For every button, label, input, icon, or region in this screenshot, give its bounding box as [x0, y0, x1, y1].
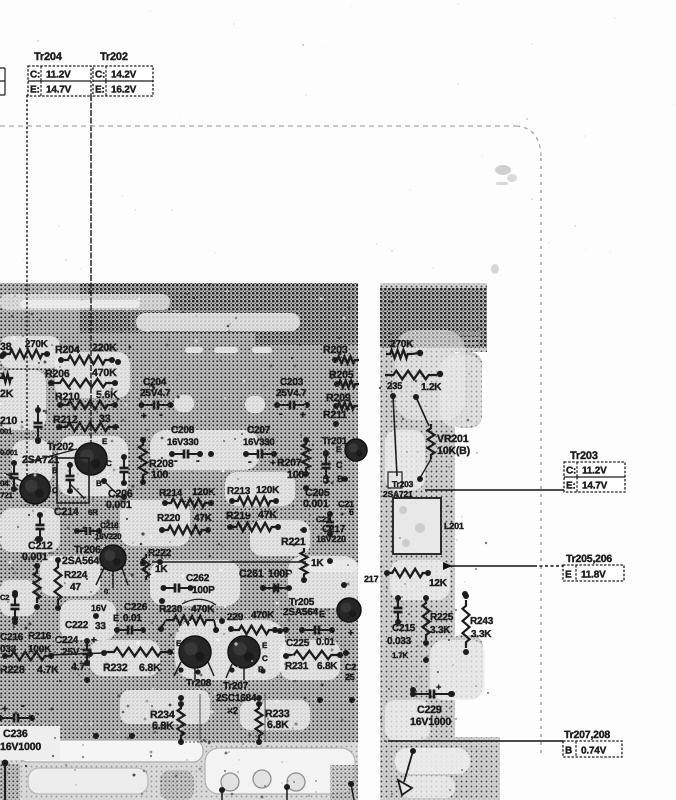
resistor R203: [323, 344, 359, 364]
svg-text:R224: R224: [64, 570, 88, 581]
resistor R219 47K: [226, 509, 281, 531]
svg-text:47K: 47K: [194, 513, 213, 524]
resistor R207 100: [277, 437, 310, 481]
svg-text:-: -: [196, 455, 200, 467]
transistor type 2SC1684 x2: [216, 693, 257, 717]
capacitor C226 0.01: [113, 602, 148, 635]
capacitor C224 25V4.7: [55, 635, 97, 683]
capacitor C215 0.033: [387, 595, 416, 647]
capacitor C230 label: [0, 593, 9, 602]
svg-text:470K: 470K: [251, 610, 275, 621]
transistor voltage table Tr207,208 header: [564, 729, 610, 741]
svg-text:Tr203: Tr203: [570, 450, 598, 462]
svg-text:E: E: [565, 570, 572, 581]
svg-text:C216: C216: [0, 632, 24, 643]
resistor R228 4.7K: [0, 652, 103, 676]
resistor R229 470K: [227, 610, 278, 634]
svg-text:47: 47: [70, 582, 81, 593]
resistor R216 100K: [28, 631, 52, 655]
resistor R217 12K: [364, 569, 448, 589]
svg-text:R211: R211: [323, 409, 347, 421]
capacitor C206 0.001: [106, 454, 133, 511]
svg-text:C: C: [336, 460, 343, 470]
svg-text:+: +: [141, 411, 147, 422]
svg-text:4.7K: 4.7K: [37, 664, 59, 676]
junction dots right block: [410, 591, 468, 697]
svg-text:0.001: 0.001: [0, 448, 18, 457]
capacitor C208 16V330: [167, 425, 203, 467]
svg-text:B: B: [96, 479, 102, 488]
svg-text:C203: C203: [280, 377, 304, 388]
svg-text:0.001: 0.001: [106, 499, 132, 511]
svg-text:470K: 470K: [92, 367, 117, 379]
svg-text:C204: C204: [143, 377, 167, 388]
transistor pin B node: [96, 478, 120, 497]
svg-text:-: -: [159, 409, 163, 421]
svg-text:100: 100: [151, 469, 168, 481]
resistor R221 1K: [281, 527, 324, 583]
svg-text:25: 25: [345, 672, 355, 682]
svg-text:120K: 120K: [256, 485, 280, 496]
board outline dashed right: [540, 158, 542, 757]
bracket 2SC1684: [181, 694, 265, 742]
junction dots bottom: [219, 781, 354, 800]
svg-text:R228: R228: [0, 664, 25, 676]
capacitor C210 0.001: [0, 405, 43, 443]
resistor R206 470K: [0, 367, 118, 387]
svg-text:14.7V: 14.7V: [46, 85, 72, 96]
svg-text:+: +: [348, 628, 354, 639]
capacitor C212 0.001: [22, 512, 53, 563]
voltage table Tr205,206: [563, 565, 624, 581]
svg-text:VR201: VR201: [437, 433, 469, 445]
capacitor C207 16V330: [243, 425, 277, 469]
transistor Tr208: [174, 636, 214, 680]
resistor value 1.7K: [392, 651, 409, 660]
capacitor C236 16V1000: [0, 700, 60, 760]
svg-text:C218: C218: [100, 521, 119, 530]
svg-text:210: 210: [0, 415, 17, 427]
svg-text:2SA564: 2SA564: [283, 607, 319, 618]
svg-text:14.7V: 14.7V: [582, 481, 608, 492]
resistor R204 220K: [55, 342, 117, 364]
transistor Tr201: [322, 436, 367, 484]
svg-text:+: +: [2, 704, 8, 715]
capacitor C220 left edge: [11, 590, 20, 625]
resistor R235 1.2K: [385, 371, 443, 476]
svg-text:C262: C262: [186, 573, 210, 584]
L201 pad area: [393, 498, 441, 554]
capacitor C205 0.001: [303, 487, 330, 510]
capacitor C229 16V1000: [410, 682, 454, 728]
svg-text:2K: 2K: [0, 388, 14, 400]
svg-text:C222: C222: [65, 620, 89, 631]
svg-text:Tr204: Tr204: [34, 51, 63, 63]
svg-text:1K: 1K: [155, 564, 168, 575]
capacitor C214 box: [57, 458, 89, 503]
resistor R231 6.8K: [283, 651, 343, 672]
svg-text:1.7K: 1.7K: [392, 651, 409, 660]
svg-text:C236: C236: [3, 728, 28, 740]
resistor R209: [326, 392, 358, 410]
transistor voltage table Tr202 header: [100, 51, 128, 63]
resistor R220 47K: [157, 513, 213, 534]
svg-text:C208: C208: [171, 425, 195, 436]
PCB copper area right block: [380, 283, 500, 800]
svg-text:100P: 100P: [268, 568, 292, 580]
node 16V: [91, 603, 107, 613]
svg-text:+: +: [300, 410, 306, 421]
svg-text:E:: E:: [30, 85, 40, 96]
svg-text:0: 0: [104, 587, 108, 596]
solder strip bottom-left: [0, 740, 358, 800]
svg-text:×2: ×2: [227, 706, 239, 717]
transistor Tr202: [28, 437, 112, 475]
svg-text:0.001: 0.001: [303, 498, 329, 510]
resistor R205: [329, 369, 359, 388]
voltage table Tr202: [93, 66, 153, 96]
svg-text:6: 6: [349, 507, 354, 517]
junction dots scattered: [0, 353, 355, 739]
voltage table Tr207,208: [563, 741, 622, 757]
wire to Tr205,206 table: [443, 562, 563, 570]
svg-text:E: E: [319, 609, 325, 619]
voltage table Tr204: [28, 66, 91, 96]
capacitor C261 100P: [239, 568, 292, 593]
svg-text:25V4.7: 25V4.7: [140, 388, 171, 399]
svg-text:+: +: [94, 534, 99, 544]
transistor Tr203: [383, 472, 423, 499]
wire to Tr203 table: [425, 489, 564, 491]
resistor R234 6.8K: [150, 701, 185, 745]
svg-text:C:: C:: [30, 70, 40, 81]
svg-text:-: -: [248, 456, 252, 468]
svg-text:217: 217: [364, 574, 379, 584]
capacitor C222 33: [65, 620, 106, 632]
resistor R210 5.6K: [55, 389, 118, 409]
dark copper band top-left: [0, 283, 358, 345]
svg-text:120K: 120K: [192, 487, 216, 498]
capacitor C211 0.001: [0, 448, 19, 492]
svg-text:E: E: [102, 437, 108, 446]
svg-text:3.3K: 3.3K: [471, 629, 492, 640]
resistor R244 270K: [386, 339, 423, 358]
svg-text:235: 235: [387, 381, 403, 392]
resistor R233 6.8K: [256, 701, 290, 745]
svg-text:R231: R231: [285, 661, 309, 672]
wire leader from Tr204 table: [26, 95, 28, 505]
svg-text:+: +: [91, 635, 97, 646]
diode D bottom: [398, 748, 416, 795]
PCB copper area left block: [0, 283, 358, 800]
svg-text:229: 229: [227, 612, 244, 623]
copper trace blobs left: [0, 313, 358, 730]
svg-text:R212: R212: [53, 414, 78, 426]
svg-text:100K: 100K: [28, 644, 52, 655]
capacitor C225 0.01: [271, 626, 354, 650]
transistor Tr207: [226, 636, 268, 680]
svg-text:47K: 47K: [258, 509, 277, 521]
svg-text:R220: R220: [157, 513, 181, 524]
svg-text:25V: 25V: [62, 647, 80, 658]
svg-text:100: 100: [287, 469, 304, 481]
svg-text:6R: 6R: [88, 508, 98, 517]
svg-text:1K: 1K: [311, 558, 324, 569]
svg-text:E:: E:: [566, 481, 576, 492]
svg-text:C207: C207: [247, 425, 271, 436]
svg-text:1.2K: 1.2K: [421, 382, 442, 393]
svg-text:R225: R225: [430, 612, 454, 623]
svg-text:470K: 470K: [191, 604, 215, 615]
svg-text:Tr201: Tr201: [322, 436, 348, 447]
capacitor C233 fragment: [345, 662, 356, 682]
resistor R232 6.8K: [101, 648, 173, 674]
svg-text:C2: C2: [0, 593, 9, 602]
svg-text:0.01: 0.01: [316, 637, 335, 648]
svg-text:11.2V: 11.2V: [46, 70, 71, 81]
svg-text:6.8K: 6.8K: [267, 719, 289, 731]
resistor R211: [323, 409, 347, 427]
resistor R230 470K: [158, 599, 219, 633]
svg-text:B: B: [565, 746, 572, 757]
svg-text:+: +: [270, 458, 276, 469]
copper trace blobs right: [385, 330, 485, 798]
svg-text:220K: 220K: [92, 342, 117, 354]
svg-text:0.033: 0.033: [387, 636, 412, 647]
svg-text:4.7: 4.7: [71, 661, 85, 673]
capacitor C213: [322, 450, 331, 484]
svg-text:0.001: 0.001: [22, 551, 48, 563]
resistor R213 120K: [227, 485, 280, 505]
capacitor C204 25V4.7: [139, 377, 174, 422]
svg-text:16V330: 16V330: [167, 437, 199, 448]
svg-text:R222: R222: [148, 548, 172, 559]
capacitor C214 label: [54, 506, 98, 518]
svg-text:E: E: [336, 445, 342, 454]
inductor L201: [393, 498, 464, 554]
svg-text:2SA564: 2SA564: [62, 555, 99, 567]
resistor R212 33: [53, 413, 119, 431]
svg-text:6.8K: 6.8K: [139, 662, 161, 674]
svg-text:5.6K: 5.6K: [96, 389, 118, 401]
svg-text:16V1000: 16V1000: [410, 716, 451, 728]
capacitor C216 .033: [0, 632, 24, 655]
resistor value 1.2K fragment: [0, 388, 14, 400]
capacitor C217 16V220: [316, 499, 354, 544]
capacitor C203 25V4.7: [274, 377, 310, 421]
svg-text:16V330: 16V330: [243, 437, 275, 448]
svg-text:25V4.7: 25V4.7: [276, 388, 307, 399]
svg-text:R203: R203: [323, 344, 348, 356]
svg-text:12K: 12K: [429, 578, 448, 589]
svg-text:L201: L201: [444, 521, 464, 531]
svg-text:0.01: 0.01: [123, 613, 142, 624]
transistor Tr202 label: [22, 441, 74, 466]
svg-text:C214: C214: [54, 506, 79, 518]
page mark: [491, 165, 517, 274]
transistor Tr205 pin E: [319, 598, 361, 622]
wire leader from Tr202 table: [90, 95, 92, 460]
transistor Tr206 label: [62, 544, 101, 567]
board outline rounded corner: [516, 126, 541, 158]
svg-text:-: -: [174, 455, 178, 467]
resistor R225 3.3K: [423, 595, 454, 646]
svg-text:-: -: [279, 408, 283, 420]
svg-text:Tr202: Tr202: [100, 51, 128, 63]
svg-text:+: +: [436, 682, 441, 692]
transistor Tr207 label: [223, 681, 249, 692]
svg-text:C229: C229: [417, 704, 442, 716]
resistor R238 270K: [0, 339, 50, 358]
svg-text:R230: R230: [159, 604, 183, 615]
transistor Tr204: [0, 473, 58, 504]
resistor R243 3.3K: [463, 593, 494, 655]
svg-text:04: 04: [0, 479, 9, 488]
svg-text:16V: 16V: [91, 603, 107, 613]
svg-text:C:: C:: [95, 70, 105, 81]
resistor R226 vertical: [34, 563, 41, 610]
svg-text:Tr207,208: Tr207,208: [564, 729, 610, 741]
transistor Tr205 label: [283, 597, 319, 618]
board outline dashed top: [0, 125, 516, 127]
transistor voltage table Tr205,206 header: [566, 553, 612, 565]
svg-text:11.8V: 11.8V: [581, 570, 606, 581]
svg-text:270K: 270K: [390, 339, 414, 350]
svg-text:C225: C225: [286, 638, 310, 649]
resistor R222 1K: [143, 548, 307, 580]
svg-text:C:: C:: [566, 466, 576, 477]
capacitor C212b 16V220: [316, 511, 334, 537]
svg-text:R205: R205: [329, 369, 354, 381]
svg-text:E: E: [262, 641, 268, 650]
resistor R224 47: [55, 557, 88, 611]
transistor Tr208 label: [186, 678, 212, 689]
svg-text:Tr203: Tr203: [392, 479, 414, 489]
svg-text:14.2V: 14.2V: [111, 70, 137, 81]
svg-text:C215: C215: [392, 623, 416, 634]
svg-text:10K(B): 10K(B): [437, 445, 470, 457]
svg-text:R207: R207: [277, 457, 302, 469]
svg-text:R214: R214: [159, 488, 183, 499]
wire to Tr207,208 table: [388, 740, 563, 742]
svg-text:6.8K: 6.8K: [317, 661, 338, 672]
svg-text:-: -: [21, 700, 25, 712]
transistor Tr206: [96, 545, 128, 596]
svg-text:R210: R210: [55, 391, 80, 403]
svg-text:16V1000: 16V1000: [0, 741, 41, 753]
dark copper band top-right: [380, 288, 487, 348]
potentiometer VR201 10K(B): [420, 424, 470, 478]
faint print fragment: [443, 332, 481, 345]
svg-text:33: 33: [95, 621, 106, 632]
capacitor C218 16V220: [74, 521, 122, 544]
svg-text:721: 721: [0, 491, 13, 500]
voltage table Tr203: [564, 462, 625, 492]
svg-text:Tr207: Tr207: [223, 681, 249, 692]
svg-text:C: C: [262, 654, 268, 663]
resistor R208 100: [139, 437, 174, 485]
svg-text:2SC1684: 2SC1684: [216, 693, 257, 704]
svg-text:R243: R243: [470, 616, 494, 627]
transistor voltage table Tr203 header: [570, 450, 598, 462]
svg-text:E:: E:: [95, 85, 105, 96]
svg-text:E: E: [113, 613, 119, 623]
transistor leg nodes: [178, 667, 265, 674]
svg-text:6.8K: 6.8K: [152, 720, 174, 732]
wire bottom left: [2, 760, 9, 800]
svg-text:C226: C226: [124, 602, 148, 613]
transistor voltage table Tr204 header: [34, 51, 63, 63]
svg-text:Tr205,206: Tr205,206: [566, 553, 612, 565]
svg-text:E: E: [176, 639, 182, 648]
svg-text:16.2V: 16.2V: [111, 85, 137, 96]
svg-text:3.3K: 3.3K: [430, 625, 451, 636]
svg-text:0.74V: 0.74V: [581, 746, 607, 757]
svg-text:R206: R206: [45, 368, 70, 380]
resistor R214 120K: [159, 487, 216, 507]
svg-text:R204: R204: [55, 344, 80, 356]
svg-text:11.2V: 11.2V: [582, 466, 607, 477]
svg-text:100P: 100P: [192, 585, 215, 596]
voltage table fragment left edge: [0, 68, 5, 95]
capacitor C262 100P: [161, 573, 216, 596]
svg-text:R216: R216: [28, 631, 52, 642]
